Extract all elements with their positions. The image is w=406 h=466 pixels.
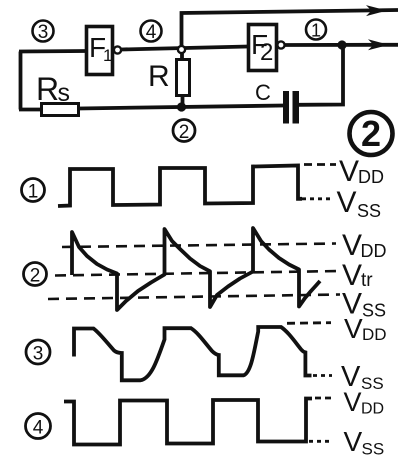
- waveform 4 VSS dotted level: [309, 440, 333, 443]
- arrowhead top output: [366, 5, 387, 16]
- svg-text:4: 4: [33, 418, 44, 439]
- waveform row 2: node 2 label (circled 2): [24, 263, 47, 287]
- svg-text:V: V: [344, 387, 362, 417]
- waveform 4 inverted square wave trace: [64, 399, 312, 445]
- node 1 label (circled 1): [306, 20, 326, 41]
- svg-text:1: 1: [103, 46, 112, 65]
- waveform 1 VSS dotted level: [302, 197, 334, 200]
- svg-text:1: 1: [28, 182, 39, 203]
- node 1 junction dot: [337, 40, 346, 49]
- waveform 2 VDD dashed level: [62, 244, 336, 248]
- waveform 2 VSS dashed level: [48, 295, 340, 300]
- svg-text:3: 3: [38, 22, 49, 43]
- svg-text:DD: DD: [361, 401, 384, 418]
- wire F2 output to right with arrow: [285, 43, 399, 47]
- waveform 3 clamped exponential trace: [74, 327, 312, 380]
- svg-text:DD: DD: [362, 325, 387, 344]
- node 3 label (circled 3): [33, 21, 54, 44]
- wire Rs to node 2 to capacitor: [78, 106, 284, 109]
- waveform 1 square wave trace: [58, 166, 302, 207]
- figure number 2 (big circled): [350, 112, 393, 155]
- waveform 3 VSS label: [341, 361, 384, 393]
- inverter F2: [249, 25, 285, 71]
- svg-text:1: 1: [311, 21, 321, 41]
- svg-text:2: 2: [179, 122, 190, 143]
- waveform 2 VSS label: [342, 288, 386, 321]
- svg-text:R: R: [36, 71, 59, 107]
- svg-text:s: s: [58, 79, 71, 107]
- waveform 2 Vtr label: [342, 259, 373, 292]
- resistor R (vertical): [148, 60, 190, 96]
- wire F1 output to F2 input through node 4: [121, 47, 248, 50]
- waveform 1 VDD label: [339, 155, 384, 188]
- svg-text:C: C: [255, 80, 271, 105]
- waveform row 1: node 1 label (circled 1): [22, 179, 45, 203]
- svg-text:SS: SS: [361, 374, 384, 393]
- waveform 1 VDD dashed level: [304, 163, 336, 166]
- waveform 2 Vtr dashed level: [55, 271, 340, 276]
- wire left vertical: [19, 52, 23, 110]
- node 4 label (circled 4): [141, 21, 162, 44]
- svg-text:2: 2: [361, 113, 381, 154]
- waveform 3 VSS dotted level: [313, 374, 332, 377]
- waveform 1 VSS label: [337, 186, 382, 221]
- svg-text:V: V: [344, 313, 363, 344]
- svg-text:2: 2: [30, 266, 41, 287]
- waveform 4 VSS label: [344, 426, 385, 459]
- svg-text:SS: SS: [357, 201, 381, 221]
- svg-text:SS: SS: [362, 440, 385, 459]
- waveform 4 VDD label: [344, 387, 385, 418]
- svg-text:R: R: [148, 60, 170, 93]
- wire node 3 input to F1: [19, 49, 86, 53]
- svg-text:V: V: [337, 186, 357, 219]
- svg-text:DD: DD: [358, 167, 384, 187]
- node 4 junction (open circle): [178, 46, 185, 53]
- svg-text:tr: tr: [361, 270, 373, 291]
- waveform row 4: node 4 label (circled 4): [26, 414, 51, 439]
- wire top feedback from node 4 to right with arrow: [182, 10, 399, 50]
- svg-text:V: V: [342, 229, 362, 262]
- wire R stubs: [180, 50, 184, 107]
- waveform 2 capacitor sawtooth trace: [72, 228, 320, 310]
- waveform 3 VDD dashed level: [287, 321, 331, 324]
- waveform 2 VDD label: [342, 229, 387, 262]
- capacitor C: [255, 80, 299, 124]
- inverter F1: [87, 27, 122, 75]
- wire capacitor to right vertical up to output node: [299, 45, 343, 105]
- svg-text:2: 2: [260, 39, 273, 66]
- waveform row 3: node 3 label (circled 3): [26, 340, 50, 365]
- resistor Rs (horizontal): [36, 71, 79, 116]
- waveform 3 VDD label: [344, 313, 387, 344]
- svg-text:3: 3: [33, 344, 44, 365]
- node 2 label (circled 2): [173, 120, 195, 144]
- svg-text:DD: DD: [361, 241, 387, 261]
- svg-text:SS: SS: [362, 301, 386, 321]
- waveform 4 VDD dashed level: [315, 397, 333, 400]
- svg-text:V: V: [339, 155, 359, 188]
- svg-text:4: 4: [146, 22, 157, 43]
- node 2 junction dot: [177, 102, 186, 111]
- svg-text:V: V: [344, 426, 363, 457]
- wire bottom left to Rs: [19, 108, 42, 112]
- arrowhead right output: [368, 39, 389, 50]
